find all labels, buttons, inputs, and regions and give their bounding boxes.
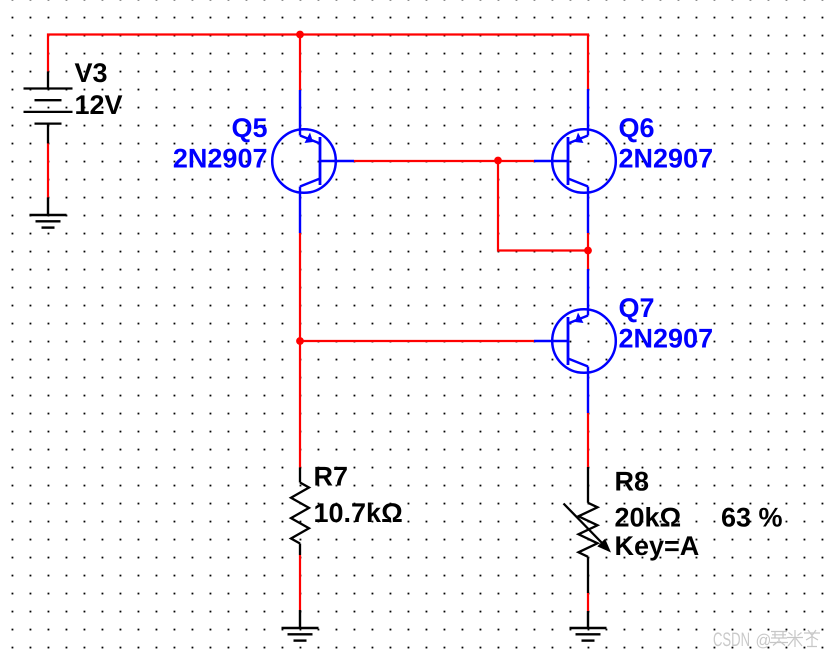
wire top rail V3 to Q6 with end drops xyxy=(48,35,588,90)
wire Q6 collector to Q7 emitter xyxy=(587,233,589,269)
junction node Q6C/Q7E xyxy=(584,247,592,255)
svg-text:Key=A: Key=A xyxy=(615,531,700,561)
svg-text:63 %: 63 % xyxy=(721,502,783,532)
ground (R8) xyxy=(570,611,607,641)
Q5 emitter arrow xyxy=(305,133,314,144)
wire R8 bottom to ground xyxy=(587,593,589,611)
svg-text:12V: 12V xyxy=(75,90,123,120)
ground (battery) xyxy=(30,197,67,227)
wire Q7 collector to R8 xyxy=(587,413,589,467)
svg-text:V3: V3 xyxy=(75,58,108,88)
junction node Q7 base/R7 xyxy=(296,337,304,345)
battery V3 xyxy=(24,71,73,143)
svg-text:Q5: Q5 xyxy=(231,113,267,143)
svg-text:Q6: Q6 xyxy=(619,113,655,143)
junction node bases xyxy=(494,157,502,165)
Q7 emitter arrow xyxy=(575,313,584,324)
potentiometer R8 xyxy=(579,467,598,593)
svg-text:2N2907: 2N2907 xyxy=(619,323,714,353)
transistor Q7 xyxy=(534,269,616,413)
wire battery bottom to ground xyxy=(47,143,49,197)
ground (R7) xyxy=(282,610,319,641)
wire Q7 base to node R7 xyxy=(300,340,534,342)
svg-text:Q7: Q7 xyxy=(619,293,655,323)
watermark hanzi xyxy=(770,630,820,647)
svg-text:10.7kΩ: 10.7kΩ xyxy=(314,498,403,528)
wire Q5 base to Q6 base xyxy=(354,160,534,162)
transistor Q5 xyxy=(272,90,354,233)
wire Q5 collector to R7 xyxy=(299,233,301,467)
transistor Q6 xyxy=(534,89,616,233)
svg-text:2N2907: 2N2907 xyxy=(619,143,714,173)
svg-text:2N2907: 2N2907 xyxy=(173,144,268,174)
svg-text:@: @ xyxy=(756,631,772,650)
resistor R7 xyxy=(291,467,309,555)
Q6 emitter arrow xyxy=(575,133,584,144)
junction node rail/Q5 xyxy=(296,31,304,39)
svg-text:R7: R7 xyxy=(314,461,349,491)
svg-text:R8: R8 xyxy=(615,467,650,497)
R8 wiper arrow xyxy=(564,504,604,545)
svg-text:CSDN: CSDN xyxy=(713,629,750,651)
wire R7 bottom to ground xyxy=(299,555,301,610)
wire node B down and across to Q6 collector xyxy=(498,161,588,251)
wire Q5 emitter to rail xyxy=(299,35,301,91)
svg-text:20kΩ: 20kΩ xyxy=(615,502,682,532)
